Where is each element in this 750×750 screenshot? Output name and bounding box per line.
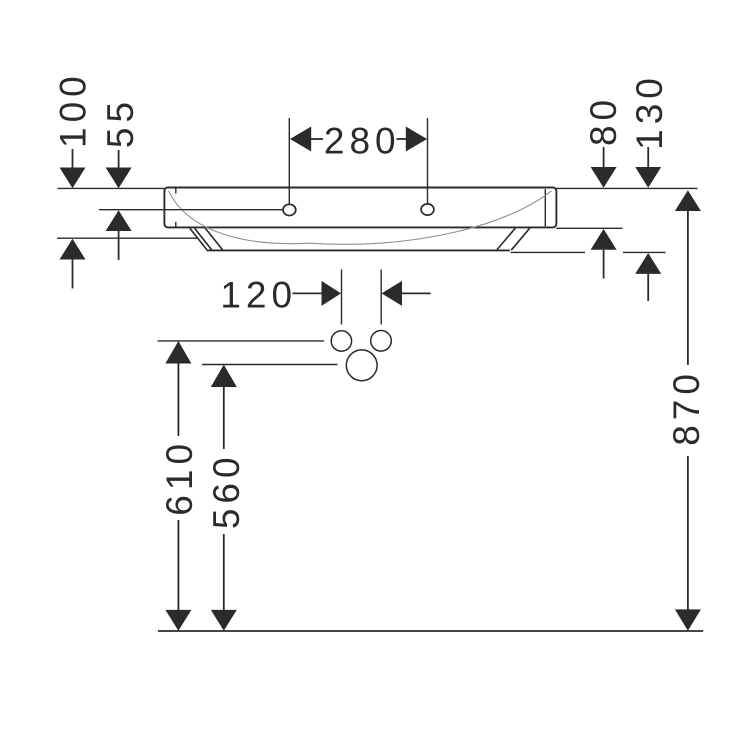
- dim 120 right arrow stem: [402, 292, 431, 294]
- dim 130 bottom arrow: [635, 253, 661, 274]
- basin deck outline: [164, 188, 556, 228]
- dim 560 top arrow: [211, 365, 237, 387]
- faucet hole left ellipse: [283, 204, 296, 215]
- dim 560 stem upper: [223, 387, 225, 449]
- svg-text:130: 130: [629, 73, 670, 150]
- apron left slant inner: [205, 228, 223, 251]
- reference line hole centers: [99, 209, 283, 211]
- drain hole small circle left: [331, 331, 351, 351]
- svg-text:280: 280: [324, 121, 401, 162]
- dim 100 top arrow: [60, 168, 86, 189]
- extension line 120 left: [341, 270, 343, 325]
- dim 55 bottom arrow: [106, 210, 132, 231]
- dim 280 left stem: [310, 138, 323, 140]
- dim 130 top stem: [647, 147, 649, 167]
- dim 100 bottom arrow: [60, 239, 86, 260]
- dim 55 top stem: [118, 150, 120, 169]
- dim 80 bottom stem: [603, 250, 605, 279]
- faucet hole right ellipse: [421, 204, 434, 215]
- reference line 80 bottom: [556, 227, 622, 229]
- dim 280 right stem: [397, 138, 408, 140]
- svg-text:560: 560: [206, 452, 247, 529]
- dim 100 top stem: [72, 149, 74, 169]
- dim 870 stem lower: [687, 456, 689, 611]
- dim 130 top arrow: [635, 167, 661, 188]
- reference line 130 bottom: [511, 251, 586, 253]
- reference line 560 top: [202, 364, 338, 366]
- reference line top left: [58, 187, 165, 189]
- dim 80 top stem: [603, 147, 605, 167]
- svg-text:120: 120: [220, 274, 297, 315]
- apron right slant outer: [511, 228, 530, 250]
- reference line 130 bottom right part: [623, 251, 666, 253]
- dim 870 bottom arrow: [675, 609, 701, 630]
- extension line 280 left: [288, 118, 290, 204]
- dim 610 bottom arrow: [165, 610, 191, 631]
- dim 280 left arrow: [290, 127, 311, 152]
- dim 280 right arrow: [406, 127, 427, 152]
- dim 560 stem lower: [223, 534, 225, 611]
- dim 870 stem upper: [687, 211, 689, 365]
- dim 610 stem upper: [177, 364, 179, 437]
- svg-text:55: 55: [100, 97, 141, 148]
- svg-text:610: 610: [159, 439, 200, 516]
- dim 560 bottom arrow: [211, 610, 237, 631]
- extension line 120 right: [380, 270, 382, 325]
- dim 55 bottom stem: [118, 231, 120, 260]
- reference line 100 bottom: [57, 237, 198, 239]
- apron bottom edge: [207, 249, 510, 251]
- svg-text:100: 100: [52, 71, 93, 148]
- drain hole big circle: [346, 350, 377, 381]
- dim 130 bottom stem: [647, 274, 649, 301]
- basin left inner edge tick bottom: [175, 222, 177, 227]
- dim 120 right arrow: [382, 281, 402, 306]
- basin left inner edge tick top: [175, 188, 177, 193]
- basin right inner edge line: [544, 189, 546, 226]
- dim 80 bottom arrow: [591, 229, 617, 250]
- floor line: [158, 630, 703, 632]
- drain hole small circle right: [371, 331, 392, 352]
- dim 120 right stem of text: [293, 292, 323, 294]
- extension line 280 right: [427, 118, 429, 204]
- dim 120 left arrow: [322, 281, 342, 306]
- apron right slant inner: [497, 228, 515, 249]
- dim 610 stem lower: [177, 520, 179, 611]
- dim 80 top arrow: [591, 167, 617, 188]
- apron left slant middle: [195, 228, 212, 250]
- basin bowl curve: [169, 191, 552, 244]
- dim 100 bottom stem: [72, 260, 74, 289]
- svg-text:80: 80: [583, 95, 624, 146]
- reference line 610 top: [158, 340, 325, 342]
- dim 610 top arrow: [165, 341, 191, 364]
- dim 55 top arrow: [106, 168, 132, 189]
- svg-text:870: 870: [666, 369, 707, 446]
- reference line top right: [556, 187, 697, 189]
- apron left slant outer: [190, 228, 207, 250]
- dim 870 top arrow: [675, 190, 701, 211]
